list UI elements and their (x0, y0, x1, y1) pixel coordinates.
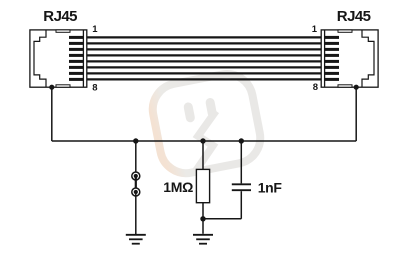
node bus A (133, 138, 138, 143)
svg-text:8: 8 (313, 82, 318, 93)
left connector top latch notch (56, 30, 70, 32)
cable wire 8 (87, 78, 321, 80)
wire bus to contact (135, 141, 137, 172)
right connector pin 8 (325, 78, 339, 81)
wire resistor to ground (202, 203, 204, 234)
cable wire 5 (87, 60, 321, 62)
left connector pin 5 (69, 60, 83, 63)
right connector pin 5 (325, 60, 339, 63)
node shield right (354, 85, 359, 90)
cable wire 6 (87, 66, 321, 68)
right connector pin 1 (325, 36, 339, 39)
left connector pin 6 (69, 66, 83, 69)
cable wire 7 (87, 72, 321, 74)
wire capacitor down (240, 191, 242, 219)
svg-text:8: 8 (92, 83, 97, 94)
left connector inner wall (82, 31, 84, 87)
left connector pin 3 (69, 48, 83, 51)
cable wire 3 (87, 48, 321, 50)
right connector jack cavity outline (362, 30, 374, 87)
svg-text:1: 1 (312, 24, 318, 35)
contact link wire (135, 176, 137, 192)
right connector pin 7 (325, 72, 339, 75)
left connector pin 8 (69, 78, 83, 81)
svg-text:1MΩ: 1MΩ (163, 179, 193, 195)
right connector pin 3 (325, 48, 339, 51)
left connector pin 2 (69, 42, 83, 45)
right connector inner wall (324, 31, 326, 87)
wire bus to capacitor (240, 141, 242, 183)
svg-text:RJ45: RJ45 (43, 8, 77, 25)
wire bus to resistor (202, 141, 204, 169)
wire contact to ground (135, 192, 137, 235)
contact point upper (132, 172, 140, 180)
shield drop wire left (51, 87, 53, 141)
resistor R1 1MOhm (196, 169, 209, 202)
node bus D (239, 138, 244, 143)
node bus B (200, 138, 205, 143)
ground middle (193, 235, 213, 244)
right connector top latch notch (338, 30, 352, 32)
cable wire 4 (87, 54, 321, 56)
right connector pin 2 (325, 42, 339, 45)
ground left (126, 235, 146, 244)
watermark logo (148, 70, 264, 178)
RJ45 connector right (jack body) (321, 30, 378, 87)
left connector pin 4 (69, 54, 83, 57)
right connector pin 4 (325, 54, 339, 57)
node C junction (200, 216, 205, 221)
left connector pin 7 (69, 72, 83, 75)
cable wire 2 (87, 42, 321, 44)
left connector bottom latch notch (56, 85, 70, 87)
shield drop wire right (355, 87, 357, 141)
left connector jack cavity outline (34, 30, 46, 87)
contact point lower (132, 188, 140, 196)
node shield left (49, 85, 54, 90)
left connector pin 1 (69, 36, 83, 39)
right connector pin 6 (325, 66, 339, 69)
right connector bottom latch notch (338, 85, 352, 87)
capacitor C1 1nF (232, 184, 251, 190)
svg-text:1nF: 1nF (258, 179, 283, 195)
RJ45 connector left (jack body) (30, 30, 87, 87)
cable wire 1 (87, 36, 321, 38)
svg-text:RJ45: RJ45 (337, 8, 371, 25)
wire capacitor to junction (203, 218, 241, 220)
shield bus wire (52, 140, 356, 142)
svg-text:1: 1 (92, 24, 98, 35)
